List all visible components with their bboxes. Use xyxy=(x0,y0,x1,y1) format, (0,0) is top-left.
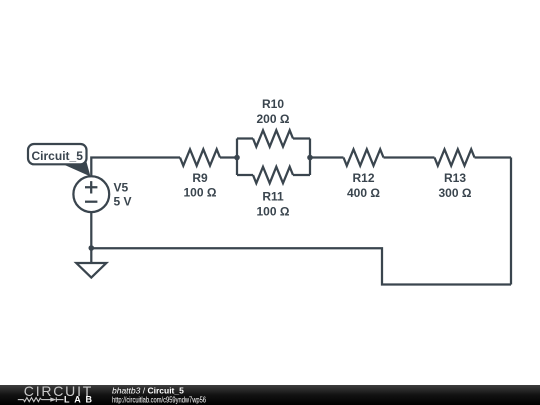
svg-text:R13: R13 xyxy=(444,171,466,185)
wire parallel box left vertical xyxy=(236,139,238,176)
footer bar xyxy=(0,385,540,405)
svg-text:bhattb3 / Circuit_5: bhattb3 / Circuit_5 xyxy=(112,385,184,395)
V5 plus sign xyxy=(85,181,97,193)
voltage source V5 xyxy=(73,176,109,212)
resistor R9 xyxy=(180,149,220,165)
svg-text:Circuit_5: Circuit_5 xyxy=(32,149,84,163)
V5 minus sign xyxy=(85,201,97,203)
svg-text:100 Ω: 100 Ω xyxy=(257,205,290,219)
wire source bottom to ground xyxy=(90,212,92,263)
logo resistor-diode line xyxy=(18,397,64,402)
wire R12 to R13 xyxy=(384,156,435,158)
wire parallel box right vertical xyxy=(309,139,311,176)
wire R13 to right corner xyxy=(475,156,512,158)
svg-text:http://circuitlab.com/c959yndw: http://circuitlab.com/c959yndw7wp56 xyxy=(112,395,206,404)
svg-text:CIRCUIT: CIRCUIT xyxy=(24,385,92,399)
wire R9 to left node xyxy=(220,156,237,158)
ground xyxy=(76,263,106,278)
svg-text:R12: R12 xyxy=(352,171,374,185)
node junction right of parallel xyxy=(307,155,313,161)
resistor R12 xyxy=(344,149,384,165)
svg-text:200 Ω: 200 Ω xyxy=(257,112,290,126)
svg-text:LAB: LAB xyxy=(64,394,93,404)
wire top branch left stub xyxy=(237,137,253,139)
wire right node to R12 xyxy=(310,156,344,158)
wire source top to main line xyxy=(91,158,180,177)
node ground junction xyxy=(89,245,95,251)
svg-text:5 V: 5 V xyxy=(114,194,132,208)
wire bottom branch left stub xyxy=(237,174,253,176)
svg-text:400 Ω: 400 Ω xyxy=(347,186,380,200)
resistor R10 xyxy=(253,130,293,146)
svg-text:100 Ω: 100 Ω xyxy=(184,186,217,200)
svg-text:R10: R10 xyxy=(262,97,284,111)
svg-text:R11: R11 xyxy=(262,190,284,204)
node junction left of parallel xyxy=(234,155,240,161)
svg-text:R9: R9 xyxy=(192,171,208,185)
wire right vertical down xyxy=(510,158,512,285)
svg-text:300 Ω: 300 Ω xyxy=(439,186,472,200)
resistor R13 xyxy=(435,149,475,165)
wire bottom branch right stub xyxy=(293,174,310,176)
svg-text:V5: V5 xyxy=(114,180,129,194)
wire bottom return xyxy=(91,248,511,284)
callout Circuit_5 xyxy=(28,144,91,177)
wire top branch right stub xyxy=(293,137,310,139)
resistor R11 xyxy=(253,167,293,183)
